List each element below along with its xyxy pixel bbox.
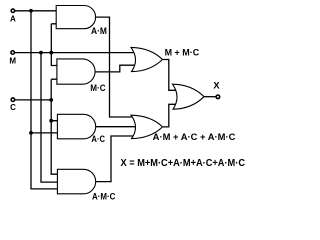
svg-text:M·C: M·C [90, 83, 106, 93]
svg-text:A·M: A·M [91, 26, 107, 36]
svg-text:M: M [9, 56, 16, 65]
svg-text:X: X [213, 81, 220, 91]
svg-text:A·M + A·C + A·M·C: A·M + A·C + A·M·C [153, 132, 236, 142]
svg-text:C: C [10, 103, 16, 112]
svg-text:A·M·C: A·M·C [92, 192, 116, 202]
svg-text:A: A [10, 14, 16, 23]
svg-text:M + M·C: M + M·C [165, 47, 200, 57]
svg-text:X = M+M·C+A·M+A·C+A·M·C: X = M+M·C+A·M+A·C+A·M·C [121, 158, 246, 169]
svg-text:A·C: A·C [91, 134, 105, 144]
